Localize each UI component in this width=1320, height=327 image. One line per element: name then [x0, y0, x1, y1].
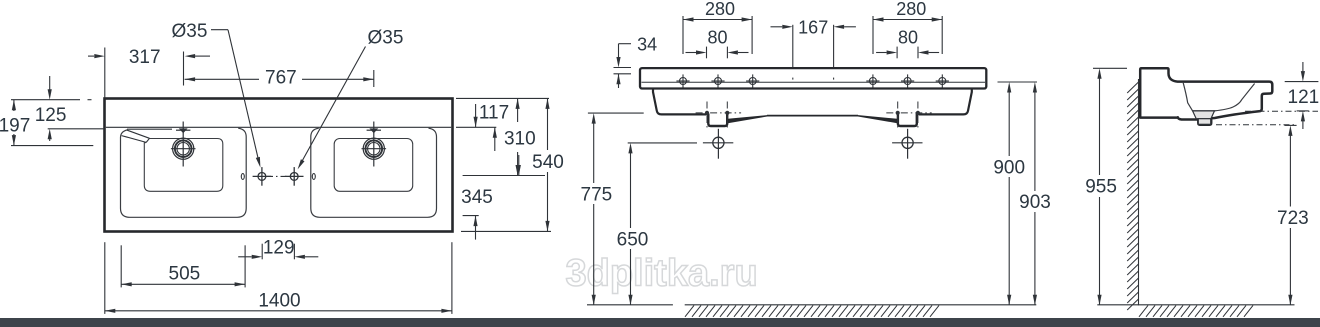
svg-text:345: 345	[461, 187, 493, 208]
dash-dot line spigot bottom level	[1216, 124, 1296, 126]
svg-text:650: 650	[617, 229, 649, 250]
ext lines 167	[793, 25, 834, 67]
slab mounting hole 3	[746, 74, 759, 87]
svg-text:129: 129	[263, 238, 295, 259]
svg-text:3dplitka.ru: 3dplitka.ru	[566, 253, 758, 295]
right basin overflow slot	[312, 174, 315, 180]
650 extension line	[628, 142, 697, 144]
dim 767	[185, 67, 374, 88]
svg-text:317: 317	[129, 47, 161, 68]
dim 167	[771, 17, 856, 37]
left faucet hole with centerline marker	[171, 122, 196, 167]
floor line segment A	[587, 304, 673, 306]
dim 903	[1019, 82, 1051, 305]
middle underside line	[767, 115, 858, 117]
label Ø35 left with leader	[172, 21, 261, 168]
dim 80 right	[876, 28, 939, 55]
ext lines 280 right	[873, 16, 942, 54]
slab mounting hole 5	[901, 74, 914, 87]
dim 280 right	[873, 0, 942, 22]
left edge extension line down	[104, 242, 106, 314]
723 top tick	[1284, 124, 1296, 126]
watermark 3dplitka.ru	[566, 253, 758, 295]
dim 723	[1277, 125, 1309, 305]
dim 775	[581, 113, 613, 305]
basin right extension line	[244, 245, 246, 287]
slab mounting hole 6	[936, 74, 949, 87]
svg-text:900: 900	[993, 157, 1025, 178]
left underside wedge	[728, 115, 768, 123]
dash-dot line front underside level	[1245, 110, 1318, 112]
svg-text:Ø35: Ø35	[172, 21, 208, 42]
bottom edge extension line right	[461, 230, 551, 232]
dim 317 extension line (left edge up)	[104, 48, 106, 98]
svg-text:34: 34	[637, 34, 657, 54]
dim 80 left	[686, 28, 749, 55]
900/903 extension line	[998, 81, 1038, 83]
drain spigot	[1198, 119, 1210, 125]
slab mounting hole 2	[711, 74, 724, 87]
basin body right edge	[917, 89, 972, 115]
svg-text:540: 540	[532, 152, 564, 173]
dim 34	[614, 34, 658, 88]
dim 650	[617, 143, 649, 305]
svg-text:125: 125	[35, 105, 67, 126]
counter top outline (plan view)	[105, 99, 453, 232]
floor hatching under front view	[685, 305, 939, 316]
ledge extension line right	[456, 126, 496, 128]
121 top extension line	[1285, 81, 1319, 83]
label Ø35 right with leader	[298, 27, 404, 169]
dim 280 left	[683, 0, 752, 22]
faucet centerline extension left	[11, 145, 93, 147]
right basin outer rim	[311, 128, 437, 217]
right faucet hole with centerline marker	[362, 122, 387, 167]
floor hatching under side view	[1139, 305, 1253, 316]
310 lower extension line	[463, 175, 545, 177]
svg-text:310: 310	[504, 128, 536, 149]
svg-text:280: 280	[896, 0, 926, 19]
left basin corner chute	[122, 130, 150, 143]
svg-text:121: 121	[1288, 87, 1320, 108]
121 bottom tick	[1297, 110, 1309, 112]
dim 900	[993, 82, 1025, 305]
drain funnel	[1193, 111, 1215, 119]
mixer hole left (Ø35)	[253, 167, 272, 186]
dim 125	[35, 76, 67, 141]
svg-text:Ø35: Ø35	[368, 27, 404, 48]
ticks 80 left	[707, 47, 728, 59]
centerline between mixer holes	[267, 175, 289, 177]
mixer hole right (Ø35)	[285, 167, 304, 186]
floor line segment B	[685, 304, 1037, 306]
dim 121	[1288, 62, 1320, 129]
dim 345	[461, 155, 521, 240]
345 lower tick	[463, 215, 479, 217]
svg-text:1400: 1400	[258, 291, 300, 312]
svg-text:903: 903	[1019, 192, 1051, 213]
left basin rim edge line	[127, 128, 172, 130]
dim 129 ticks	[262, 244, 294, 260]
left basin overflow slot	[241, 174, 244, 180]
slab mounting hole 4	[866, 74, 879, 87]
dim 117	[474, 98, 520, 127]
left trap circle	[703, 129, 733, 159]
dim 317	[88, 47, 210, 68]
front slab outline	[640, 68, 986, 88]
wall hatching	[1127, 82, 1138, 310]
svg-text:80: 80	[707, 28, 727, 48]
ledge extension line left	[48, 128, 105, 130]
ext lines 280 left	[683, 16, 752, 54]
basin left extension line	[120, 245, 122, 287]
dim 540	[532, 98, 564, 231]
basin body left edge	[653, 89, 708, 115]
left basin inner bowl	[144, 139, 223, 192]
back ledge line	[106, 126, 451, 128]
side profile outline	[1140, 68, 1272, 124]
top edge extension line right	[456, 97, 549, 99]
svg-text:280: 280	[705, 0, 735, 19]
dim 129	[238, 238, 318, 259]
wall line	[1138, 79, 1140, 305]
front slab inner line	[642, 81, 986, 83]
right underside wedge	[857, 115, 897, 123]
svg-text:723: 723	[1277, 208, 1309, 229]
svg-text:767: 767	[265, 67, 297, 88]
dim 955	[1085, 68, 1117, 305]
left drain boss	[708, 114, 727, 127]
955 extension line	[1093, 67, 1127, 69]
left drain bolt centerlines	[696, 102, 742, 128]
svg-text:197: 197	[0, 116, 30, 137]
floor line segment C	[1097, 304, 1294, 306]
svg-text:955: 955	[1085, 177, 1117, 198]
dim 505	[121, 263, 245, 286]
svg-text:80: 80	[898, 28, 918, 48]
svg-text:505: 505	[169, 263, 201, 284]
right basin inner bowl	[334, 139, 413, 192]
left basin outer rim	[121, 128, 247, 217]
dim 197	[0, 100, 30, 146]
dim 767 tick at right faucet	[373, 70, 375, 87]
slab mounting hole 1	[676, 74, 689, 87]
right trap circle	[892, 129, 922, 159]
dim 317/767 tick at left faucet	[183, 52, 185, 86]
bowl interior line	[1183, 83, 1254, 111]
dim 310	[493, 127, 536, 175]
right drain bolt centerlines	[886, 102, 931, 128]
ticks 80 right	[897, 47, 918, 59]
right drain boss	[898, 114, 917, 127]
svg-text:117: 117	[479, 103, 509, 124]
svg-text:167: 167	[798, 17, 828, 37]
775 extension line	[588, 112, 644, 114]
167 center dots	[793, 78, 834, 80]
dim 1400	[105, 291, 452, 313]
svg-text:775: 775	[581, 184, 613, 205]
dim 125/197 top extension line	[11, 99, 92, 101]
bottom dark band	[0, 318, 1320, 327]
right edge extension line down	[451, 242, 453, 314]
